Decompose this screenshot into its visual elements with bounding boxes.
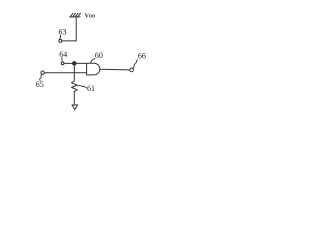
svg-text:DD: DD [89,14,95,19]
svg-text:64: 64 [59,50,67,59]
svg-text:60: 60 [95,51,103,60]
svg-text:66: 66 [138,51,146,60]
svg-text:63: 63 [59,27,67,36]
svg-text:65: 65 [36,80,44,89]
svg-text:61: 61 [87,84,95,93]
